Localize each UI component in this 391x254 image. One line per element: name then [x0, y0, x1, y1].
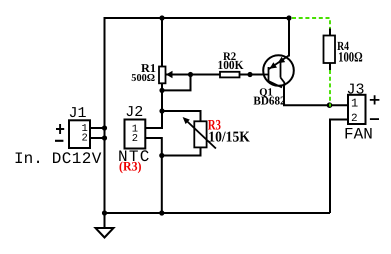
wire +12V top rail — [105, 17, 290, 19]
wire R1 top feed — [161, 18, 163, 67]
R1 wiper arrow — [166, 71, 173, 79]
svg-text:FAN: FAN — [344, 125, 373, 143]
junction J1 pin 2 / rail — [102, 135, 107, 140]
Q1 base bar 1 — [268, 67, 270, 81]
connector J2 body — [125, 120, 146, 149]
junction top rail / R1 — [159, 15, 164, 20]
svg-text:BD682: BD682 — [253, 94, 285, 108]
junction R1 bottom / wiper return — [159, 88, 164, 93]
Q1 emitter diagonal — [269, 55, 290, 69]
wire J1 pin 1 stub — [90, 127, 105, 129]
wire R2 to Q1 base — [240, 74, 265, 76]
connector J3 body — [348, 95, 366, 124]
wire Q1 collector to fan node — [284, 85, 348, 105]
resistor R2 body — [220, 72, 240, 78]
svg-text:2: 2 — [82, 133, 88, 145]
wire (green dashed) R4 to fan node — [329, 70, 331, 107]
Q1 base bar 2 — [280, 61, 282, 77]
junction fan node (collector / R4 / J3) — [327, 102, 333, 108]
junction R3 top branch — [159, 108, 164, 113]
junction R1 wiper node — [188, 72, 193, 77]
svg-text:100K: 100K — [218, 58, 244, 72]
J3 plus sign — [370, 95, 380, 104]
svg-text:(R3): (R3) — [119, 159, 142, 174]
wire R1 bottom down to J2 pin 1 — [145, 83, 162, 128]
junction ground rail left / ground symbol — [102, 210, 107, 215]
junction R3 bottom branch — [159, 153, 164, 158]
svg-text:In.: In. — [14, 150, 43, 168]
svg-text:DC12V: DC12V — [52, 150, 102, 168]
svg-text:1: 1 — [351, 97, 358, 111]
J3 minus sign — [370, 118, 379, 120]
wire J1 vertical rail (top to ground) — [104, 17, 106, 213]
wire J1 pin 2 stub — [90, 137, 105, 139]
svg-text:2: 2 — [132, 133, 138, 145]
resistor R4 body — [324, 36, 336, 64]
Q1 base line — [264, 74, 269, 76]
potentiometer R3 body — [194, 121, 206, 147]
svg-text:100Ω: 100Ω — [338, 50, 363, 65]
wire Q1 emitter to +12V rail — [288, 18, 290, 57]
svg-text:J2: J2 — [125, 104, 143, 121]
wire R3 bottom to J2 pin 2 rail — [162, 147, 201, 155]
wire R4 top pin stub — [329, 28, 331, 36]
connector J1 body — [69, 120, 90, 148]
wire R4 bottom pin stub — [329, 63, 331, 71]
resistor R1 (trimmer 500 ohm) body — [159, 67, 166, 84]
junction top rail / Q1 emitter / R4 link — [286, 15, 291, 20]
junction ground rail / J2 — [159, 210, 164, 215]
Q1 emitter arrow 2 — [278, 57, 286, 64]
ground symbol — [96, 213, 114, 238]
J1 minus sign — [55, 140, 63, 142]
wire node to R3 top — [162, 111, 201, 121]
junction base wire — [247, 72, 252, 77]
wire (green dashed) +12V to R4 — [292, 18, 330, 29]
Q1 emitter arrow 1 — [269, 62, 277, 69]
svg-text:500Ω: 500Ω — [131, 73, 155, 84]
wire J3 pin 2 to ground rail — [330, 120, 348, 214]
J1 plus sign — [56, 124, 64, 134]
svg-text:10/15K: 10/15K — [208, 130, 250, 146]
R3 wiper diagonal arrow — [183, 117, 216, 149]
svg-text:J1: J1 — [69, 105, 87, 122]
Q1 inner collector diagonal from bar 1 — [269, 81, 283, 88]
wire ground bottom rail — [105, 212, 331, 214]
wire wiper to R2 — [166, 74, 220, 76]
transistor Q1 BD682 (PNP darlington) — [263, 55, 294, 87]
Q1 collector diagonal from bar 2 — [281, 78, 285, 87]
svg-text:2: 2 — [351, 113, 358, 125]
wire R1 wiper return — [162, 75, 191, 91]
junction J1 pin 1 / rail — [102, 125, 107, 130]
wire J2 pin 2 to ground rail — [145, 138, 162, 213]
